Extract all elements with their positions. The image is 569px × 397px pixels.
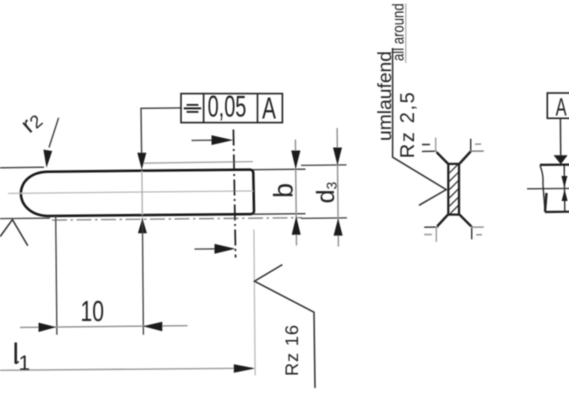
Rz 16 text	[282, 325, 302, 376]
groove contour marks bottom-left	[424, 226, 438, 228]
key axis line (light)	[8, 191, 253, 194]
datum stem	[559, 118, 561, 155]
Rz 2,5 text	[397, 92, 419, 158]
section arrow top	[192, 139, 223, 141]
extension of key top edge (for b)	[253, 168, 306, 171]
surface symbol on lower keyway edge	[0, 220, 28, 246]
feature control frame leader	[141, 108, 181, 155]
r2 label	[16, 106, 47, 138]
break line thick lower part	[545, 193, 547, 212]
dimension line through key at x=141 (gray)	[141, 171, 143, 215]
dimension d3 line	[337, 128, 338, 247]
dimension l1 line	[0, 368, 252, 370]
key outline (main view, rounded left end)	[21, 170, 254, 216]
break line left	[540, 165, 545, 212]
svg-text:b: b	[269, 183, 299, 198]
depth arrow down	[561, 176, 567, 188]
dimension b line	[295, 140, 296, 246]
dim 10 right arrow	[143, 322, 162, 331]
svg-text:A: A	[262, 92, 276, 126]
all around text (gray)	[390, 3, 407, 61]
leader arrow onto key top edge	[137, 153, 146, 170]
Rz 16 surface symbol on key end face	[254, 265, 315, 388]
extension of key bottom edge (for b)	[253, 213, 306, 216]
svg-text:A: A	[556, 94, 567, 122]
svg-text:10: 10	[81, 296, 105, 328]
extension line down to dim 10	[142, 218, 143, 335]
chamfer diagonal top-right	[460, 151, 471, 163]
shaft piece bottom edge	[545, 211, 569, 214]
l1 extension line (key right end)	[254, 230, 255, 376]
chamfer diagonal bottom-right	[460, 215, 472, 227]
symmetry symbol	[187, 104, 199, 106]
section cutting line (dash-dot)	[233, 130, 235, 258]
all around underline	[405, 4, 407, 64]
svg-text:all around: all around	[390, 3, 407, 61]
l1 right arrow	[234, 364, 256, 373]
d3 top arrow	[333, 148, 342, 166]
r2 leader arrow	[43, 150, 52, 168]
dimension 10 line	[20, 326, 188, 328]
groove contour marks top-left	[422, 150, 437, 152]
hatching	[449, 165, 458, 214]
d3 label	[312, 181, 340, 203]
section view: hatched key cross-section	[448, 164, 459, 215]
svg-text:umlaufend: umlaufend	[375, 51, 396, 141]
hub edge line (gray, above key)	[141, 162, 253, 164]
datum A box (right view)	[547, 93, 569, 118]
b top arrow	[291, 151, 300, 170]
arrow up to centerline	[138, 218, 147, 233]
chamfer diagonal bottom-left	[437, 215, 448, 227]
groove contour marks bottom-right	[471, 226, 473, 240]
center dash-dot line below key	[52, 218, 302, 220]
section arrow bottom	[195, 248, 225, 250]
shaft keyway depth line	[527, 187, 569, 189]
shaft piece top edge	[540, 164, 569, 166]
Rz 2,5 all-around surface symbol	[393, 48, 447, 205]
extension line top (for d3)	[301, 164, 347, 167]
dim 10 left arrow	[39, 323, 57, 332]
umlaufend text	[375, 51, 396, 141]
svg-text:1: 1	[19, 352, 31, 375]
d3 bottom arrow	[334, 218, 343, 235]
feature control frame box	[181, 94, 282, 123]
dimension 10: extension line left	[56, 216, 57, 335]
keyway edge line top left	[0, 166, 44, 169]
depth dimension line	[563, 166, 566, 212]
chamfer diagonal top-left	[437, 152, 448, 163]
extension line bottom (for d3)	[301, 217, 347, 220]
depth arrow up	[562, 189, 568, 201]
b label	[269, 183, 299, 198]
keyway edge line bottom left	[0, 217, 50, 220]
svg-text:0,05: 0,05	[208, 91, 247, 124]
svg-text:Rz 2,5: Rz 2,5	[397, 92, 419, 158]
r2 leader line	[49, 118, 59, 148]
groove contour marks top-right	[470, 139, 472, 152]
svg-text:Rz 16: Rz 16	[282, 325, 302, 376]
b bottom arrow	[292, 216, 301, 235]
datum triangle	[554, 155, 568, 164]
